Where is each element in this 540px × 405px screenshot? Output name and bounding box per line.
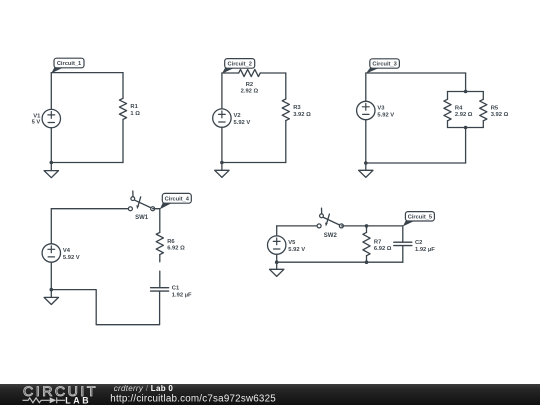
- svg-text:R7: R7: [374, 240, 381, 246]
- svg-text:5.92 V: 5.92 V: [234, 120, 251, 126]
- svg-text:6.92 Ω: 6.92 Ω: [374, 246, 392, 252]
- wire: [366, 162, 466, 164]
- node flag Circuit_3: [366, 59, 400, 74]
- svg-text:3.92 Ω: 3.92 Ω: [491, 112, 509, 118]
- wire: [448, 127, 484, 129]
- svg-text:R1: R1: [130, 104, 138, 110]
- wire: [122, 119, 124, 162]
- ground: [44, 164, 58, 177]
- svg-text:LAB: LAB: [65, 395, 91, 405]
- svg-text:6.92 Ω: 6.92 Ω: [167, 246, 185, 252]
- ground: [270, 263, 284, 276]
- svg-text:1.92 µF: 1.92 µF: [172, 292, 192, 298]
- junction: [50, 288, 54, 292]
- wire: [365, 120, 367, 163]
- svg-text:C1: C1: [172, 286, 180, 292]
- wire: [365, 73, 367, 101]
- wire: [366, 256, 368, 263]
- wire: [50, 73, 52, 110]
- svg-text:5.92 V: 5.92 V: [63, 255, 80, 261]
- switch SW1: [128, 191, 154, 221]
- wire: [285, 121, 287, 163]
- capacitor C1: [151, 286, 192, 299]
- capacitor C2: [394, 240, 435, 253]
- wire: [482, 92, 484, 100]
- wire: [447, 92, 449, 100]
- wire: [222, 72, 239, 74]
- wire: [341, 225, 402, 227]
- svg-text:crdterry / Lab 0: crdterry / Lab 0: [114, 384, 174, 393]
- wire: [51, 208, 130, 210]
- voltage source V3: [357, 101, 395, 119]
- svg-text:R2: R2: [246, 82, 253, 88]
- junction: [464, 126, 468, 130]
- junction: [364, 161, 368, 165]
- wire: [276, 254, 278, 262]
- node flag Circuit_5: [403, 212, 435, 227]
- svg-text:2.92 Ω: 2.92 Ω: [241, 88, 259, 94]
- wire: [153, 208, 160, 210]
- wire: [159, 255, 161, 262]
- wire: [222, 162, 286, 164]
- wire: [221, 127, 223, 162]
- node flag Circuit_1: [51, 58, 84, 73]
- svg-text:1.92 µF: 1.92 µF: [415, 247, 435, 253]
- wire: [260, 72, 286, 74]
- svg-text:Circuit_4: Circuit_4: [165, 197, 190, 203]
- svg-text:R4: R4: [455, 106, 463, 112]
- svg-text:R6: R6: [167, 239, 175, 245]
- wire: [402, 246, 404, 263]
- voltage source V2: [213, 109, 251, 127]
- junction: [50, 161, 54, 165]
- wire: [51, 72, 123, 74]
- svg-text:R3: R3: [293, 105, 301, 111]
- svg-text:Circuit_1: Circuit_1: [57, 61, 81, 67]
- resistor R5: [480, 99, 509, 121]
- svg-text:SW2: SW2: [324, 233, 338, 239]
- wire: [51, 162, 123, 164]
- svg-text:1 Ω: 1 Ω: [130, 111, 140, 117]
- wire: [465, 73, 467, 92]
- wire: [50, 128, 52, 163]
- wire: [276, 226, 278, 236]
- wire: [122, 73, 124, 99]
- resistor R2: [239, 69, 261, 94]
- voltage source V1: [32, 109, 61, 127]
- svg-text:Circuit_3: Circuit_3: [372, 62, 396, 68]
- resistor R3: [282, 99, 311, 121]
- svg-text:Circuit_2: Circuit_2: [228, 62, 252, 68]
- wire: [277, 225, 319, 227]
- junction: [365, 224, 369, 228]
- svg-text:5 V: 5 V: [32, 120, 41, 126]
- resistor R4: [444, 99, 473, 121]
- wire: [482, 121, 484, 128]
- wire: [159, 209, 161, 233]
- junction: [464, 90, 468, 94]
- svg-text:3.92 Ω: 3.92 Ω: [293, 112, 311, 118]
- wire: [402, 226, 404, 242]
- wire: [366, 226, 368, 233]
- node flag Circuit_4: [160, 193, 192, 209]
- wire: [159, 271, 161, 287]
- resistor R1: [119, 98, 140, 119]
- wire: [285, 73, 287, 99]
- junction: [275, 260, 279, 264]
- switch SW2: [317, 208, 343, 239]
- ground: [359, 164, 373, 177]
- wire: [366, 72, 466, 74]
- svg-text:Circuit_5: Circuit_5: [408, 214, 432, 220]
- wire: [51, 290, 159, 325]
- logo circuit line with resistor and diode: [23, 397, 66, 403]
- svg-text:5.92 V: 5.92 V: [288, 247, 305, 253]
- svg-text:5.92 V: 5.92 V: [377, 113, 394, 119]
- wire: [50, 209, 52, 244]
- svg-text:V5: V5: [288, 240, 296, 246]
- junction: [220, 161, 224, 165]
- svg-text:2.92 Ω: 2.92 Ω: [455, 112, 473, 118]
- wire: [50, 262, 52, 289]
- svg-text:SW1: SW1: [135, 215, 149, 221]
- svg-text:C2: C2: [415, 240, 422, 246]
- svg-text:V4: V4: [63, 248, 71, 254]
- voltage source V4: [42, 244, 80, 262]
- junction: [365, 260, 369, 264]
- voltage source V5: [268, 236, 306, 254]
- wire: [448, 91, 484, 93]
- node flag Circuit_2: [222, 59, 255, 74]
- svg-text:V2: V2: [234, 113, 241, 119]
- wire: [447, 121, 449, 128]
- wire: [277, 261, 403, 263]
- svg-text:V3: V3: [377, 106, 385, 112]
- svg-text:R5: R5: [491, 106, 499, 112]
- resistor R6: [156, 232, 185, 254]
- ground: [44, 291, 58, 304]
- resistor R7: [363, 232, 392, 255]
- svg-text:http://circuitlab.com/c7sa972s: http://circuitlab.com/c7sa972sw6325: [110, 394, 276, 405]
- wire: [465, 128, 467, 164]
- wire: [221, 73, 223, 109]
- ground: [215, 164, 229, 177]
